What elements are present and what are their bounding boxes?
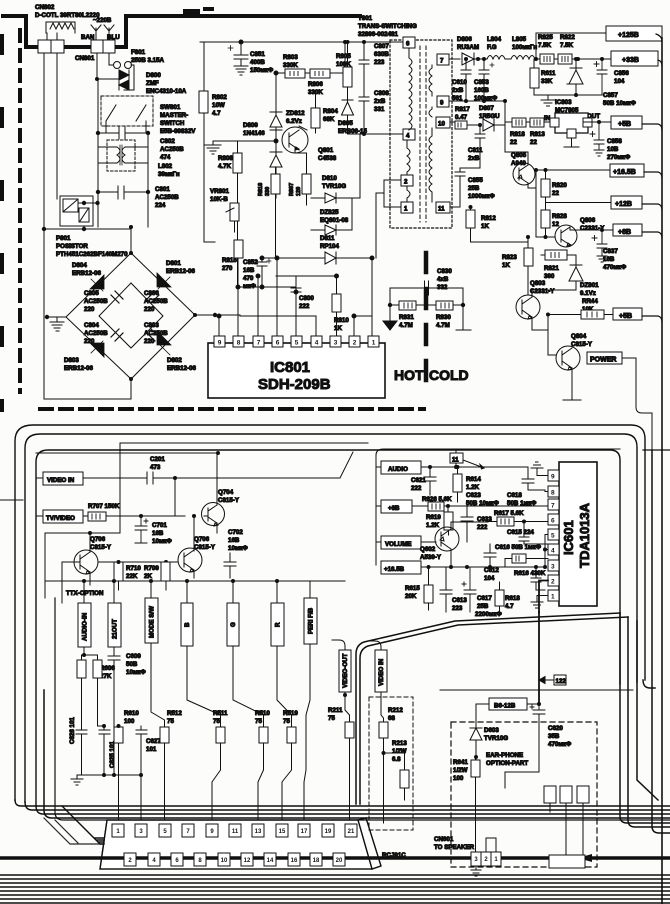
svg-text:9.1Vz: 9.1Vz	[580, 290, 596, 297]
node +8B	[613, 224, 642, 236]
svg-text:68K: 68K	[323, 116, 335, 123]
svg-text:6.2Vz: 6.2Vz	[286, 118, 302, 125]
svg-text:TDA1013A: TDA1013A	[577, 502, 592, 568]
svg-text:17: 17	[301, 829, 308, 835]
svg-text:C855: C855	[468, 177, 483, 184]
svg-text:1.2K: 1.2K	[426, 522, 440, 529]
svg-text:RP104: RP104	[320, 243, 339, 250]
wire gnd rail 775	[71, 775, 141, 785]
node POWER	[587, 352, 622, 364]
svg-text:EAR-PHONE: EAR-PHONE	[486, 752, 523, 759]
svg-text:B: B	[184, 622, 191, 627]
page-edge dashes far left	[0, 36, 4, 410]
svg-text:C856: C856	[614, 70, 629, 77]
wire IC601 pin1 heavy drop	[538, 612, 540, 705]
svg-text:TVR10G: TVR10G	[484, 735, 508, 742]
svg-text:100: 100	[453, 775, 464, 782]
svg-text:Q706: Q706	[90, 536, 106, 543]
svg-text:IC801: IC801	[270, 359, 310, 376]
svg-text:AC250B: AC250B	[84, 298, 108, 305]
connector BAN/BLU	[91, 40, 103, 53]
earphone jack contacts	[544, 786, 556, 803]
ground at bridge	[50, 322, 64, 331]
svg-text:C830: C830	[437, 268, 452, 275]
border outer	[15, 425, 645, 800]
svg-text:TTX-OPTION: TTX-OPTION	[66, 590, 104, 597]
svg-text:10мкФ: 10мкФ	[126, 669, 147, 676]
svg-text:15: 15	[279, 829, 286, 835]
svg-text:101: 101	[146, 746, 157, 753]
wire +16.5 rail to pins	[545, 535, 548, 568]
svg-text:D809: D809	[243, 122, 258, 129]
svg-text:C617: C617	[477, 595, 492, 602]
wire pin9 to IC803	[449, 101, 512, 122]
node TV/VIDEO	[43, 510, 83, 523]
wire bus bundle under IC601	[356, 613, 620, 804]
svg-text:R611: R611	[541, 70, 556, 77]
svg-text:D807: D807	[479, 105, 494, 112]
svg-text:R831: R831	[399, 314, 414, 321]
border second	[25, 434, 637, 802]
T801 pin 9	[437, 96, 449, 107]
node MODE S/W	[145, 598, 158, 643]
svg-text:C702: C702	[228, 529, 243, 536]
svg-text:D811: D811	[320, 235, 335, 242]
svg-text:AC250B: AC250B	[84, 330, 108, 337]
T801 pin 7	[437, 54, 449, 65]
svg-text:C815-Y: C815-Y	[218, 497, 240, 504]
svg-text:ERB12-06: ERB12-06	[64, 365, 93, 372]
resistor R813 22	[530, 118, 544, 127]
svg-text:16B: 16B	[152, 530, 164, 537]
svg-text:C801: C801	[155, 186, 170, 193]
border third	[36, 450, 620, 806]
svg-text:DZ801: DZ801	[580, 282, 599, 289]
connector CN801	[38, 40, 51, 53]
node AUDIO-IN	[78, 603, 91, 647]
svg-text:16B: 16B	[603, 256, 615, 263]
svg-text:10: 10	[221, 858, 228, 864]
svg-text:220: 220	[144, 306, 155, 313]
svg-text:4: 4	[406, 133, 410, 140]
svg-text:E5B-99832V: E5B-99832V	[160, 128, 196, 135]
svg-text:4: 4	[315, 340, 319, 347]
transistor Q602 A539-Y	[435, 527, 459, 551]
wire bus diagonals left	[62, 806, 104, 844]
svg-text:D805: D805	[338, 120, 353, 127]
wire feed rail	[45, 580, 345, 582]
resistor R830 4.7M	[436, 301, 453, 310]
wire right border verticals	[643, 680, 655, 688]
svg-text:C851: C851	[250, 51, 265, 58]
svg-text:Q602: Q602	[420, 546, 436, 553]
svg-text:R512: R512	[167, 710, 182, 717]
svg-text:ERB12-06: ERB12-06	[72, 270, 101, 277]
resistor R818v 330	[258, 183, 271, 196]
svg-text:~220B: ~220B	[93, 17, 112, 24]
IC801 pins	[214, 336, 379, 347]
svg-text:104: 104	[484, 575, 495, 582]
svg-text:R707 150K: R707 150K	[88, 503, 120, 510]
svg-text:19: 19	[325, 829, 332, 835]
svg-text:D803: D803	[64, 357, 79, 364]
svg-text:122: 122	[556, 678, 567, 685]
svg-text:7.5K: 7.5K	[560, 42, 574, 49]
svg-text:R641: R641	[453, 759, 468, 766]
resistor R802	[199, 91, 208, 113]
svg-text:EQ801-08: EQ801-08	[320, 217, 349, 224]
svg-text:+33B: +33B	[622, 57, 639, 64]
svg-text:F801: F801	[131, 49, 146, 56]
svg-text:270: 270	[222, 265, 233, 272]
svg-text:ERB12-06: ERB12-06	[166, 268, 195, 275]
svg-text:R617 5.6K: R617 5.6K	[494, 510, 524, 517]
resistor R709 2K	[161, 562, 170, 581]
resistor R611 33K	[530, 68, 539, 88]
svg-text:G: G	[230, 622, 237, 627]
svg-text:474: 474	[160, 154, 171, 161]
svg-text:SW801: SW801	[160, 104, 181, 111]
svg-text:20: 20	[336, 858, 343, 864]
svg-text:R808: R808	[218, 155, 233, 162]
svg-text:R822: R822	[560, 34, 575, 41]
svg-text:+8B: +8B	[388, 505, 400, 512]
svg-text:ERB12-06: ERB12-06	[167, 365, 196, 372]
svg-text:223: 223	[374, 59, 385, 66]
svg-text:400B: 400B	[250, 59, 265, 66]
svg-text:VIDEO-OUT: VIDEO-OUT	[342, 653, 349, 688]
svg-text:R610: R610	[124, 710, 139, 717]
T801 pin 10	[436, 117, 450, 128]
svg-text:1.2K: 1.2K	[466, 484, 480, 491]
T801 pin 11	[436, 202, 450, 213]
svg-text:R616 430K: R616 430K	[514, 570, 546, 577]
svg-text:C858: C858	[607, 138, 622, 145]
svg-text:R211: R211	[328, 707, 343, 714]
svg-text:16B: 16B	[228, 537, 240, 544]
svg-text:COLD: COLD	[429, 367, 469, 383]
wire pin10 cluster	[450, 121, 455, 123]
svg-text:50B 10мкФ: 50B 10мкФ	[603, 100, 637, 107]
svg-text:C803: C803	[144, 322, 159, 329]
svg-text:22: 22	[510, 139, 517, 146]
svg-text:+16.5B: +16.5B	[613, 169, 636, 176]
node B6-12B	[489, 698, 527, 710]
svg-text:C837: C837	[603, 248, 618, 255]
node 21OUT	[108, 603, 121, 647]
svg-text:AUDIO: AUDIO	[388, 466, 408, 473]
svg-text:+125B: +125B	[618, 32, 639, 39]
svg-text:R709: R709	[144, 565, 159, 572]
svg-text:21OUT: 21OUT	[112, 619, 119, 639]
svg-text:16B: 16B	[243, 267, 255, 274]
svg-text:R820: R820	[552, 182, 567, 189]
wire thick speaker bus	[0, 856, 670, 860]
svg-text:R618: R618	[505, 595, 520, 602]
bridge rectifier diamond	[66, 253, 195, 379]
svg-text:IC601: IC601	[561, 520, 576, 555]
svg-text:2xB: 2xB	[374, 98, 386, 105]
svg-text:C620: C620	[548, 725, 563, 732]
connector CN601 pins overlay	[471, 852, 501, 866]
ground C830 left	[383, 305, 397, 330]
svg-text:R823: R823	[502, 254, 517, 261]
connector pins bottom row	[124, 853, 345, 866]
svg-text:32896-002481: 32896-002481	[358, 31, 398, 38]
wire video in	[36, 478, 144, 516]
wire C801 loop	[98, 79, 148, 227]
svg-text:5: 5	[551, 533, 555, 540]
HOT/COLD dashed divider	[424, 253, 429, 395]
svg-text:8: 8	[551, 490, 555, 497]
svg-text:TV/VIDEO: TV/VIDEO	[46, 515, 75, 522]
svg-text:1N4146: 1N4146	[243, 130, 265, 137]
svg-text:Q704: Q704	[218, 489, 234, 496]
svg-text:331: 331	[374, 106, 385, 113]
svg-text:R828: R828	[552, 213, 567, 220]
svg-text:4.7: 4.7	[505, 603, 514, 610]
svg-text:HOT: HOT	[394, 367, 424, 383]
svg-text:2: 2	[404, 179, 408, 186]
svg-text:VOLUME: VOLUME	[385, 541, 411, 548]
wire AC input thick	[3, 16, 40, 47]
svg-text:R807: R807	[289, 183, 295, 196]
dashed box R212/R213	[369, 697, 413, 830]
svg-text:R803: R803	[283, 54, 298, 61]
wire video-out top stub	[332, 640, 345, 650]
svg-text:160B: 160B	[474, 87, 489, 94]
svg-text:C701: C701	[152, 522, 167, 529]
svg-text:C800: C800	[299, 295, 314, 302]
wire rail 287	[217, 287, 296, 336]
node PERI F/B	[304, 598, 317, 644]
svg-text:DZ825: DZ825	[320, 209, 339, 216]
svg-text:10W: 10W	[212, 102, 225, 109]
transistor Q801	[282, 127, 308, 153]
svg-text:10K-B: 10K-B	[210, 196, 228, 203]
svg-text:D810: D810	[322, 175, 337, 182]
svg-text:473: 473	[150, 464, 161, 471]
svg-text:220: 220	[84, 306, 95, 313]
svg-text:R619: R619	[426, 514, 441, 521]
svg-text:VIDEO IN: VIDEO IN	[378, 658, 385, 686]
svg-text:0.47: 0.47	[455, 114, 468, 121]
svg-text:C853: C853	[474, 79, 489, 86]
resistor R804	[311, 108, 320, 128]
svg-text:50B: 50B	[126, 661, 138, 668]
svg-text:C615 224: C615 224	[507, 529, 534, 536]
wire main top rail	[200, 42, 409, 91]
svg-text:+12B: +12B	[615, 201, 632, 208]
svg-text:4.7M: 4.7M	[436, 322, 450, 329]
svg-text:C616 50B 1мкФ: C616 50B 1мкФ	[495, 544, 542, 551]
svg-text:223: 223	[452, 605, 463, 612]
wire bridge right to rail	[195, 314, 240, 316]
svg-text:D800: D800	[146, 72, 161, 79]
IC601 chip	[559, 462, 597, 606]
wire top rails	[36, 443, 368, 598]
svg-text:R821: R821	[544, 265, 559, 272]
svg-text:75: 75	[328, 715, 335, 722]
svg-text:C804: C804	[84, 322, 99, 329]
wire CN801 down pair	[44, 53, 57, 229]
svg-text:12: 12	[244, 858, 251, 864]
T801 pin 6	[403, 37, 415, 48]
svg-text:SWITCH: SWITCH	[160, 120, 185, 127]
svg-text:22K: 22K	[126, 573, 138, 580]
resistor R810 1K	[332, 294, 341, 312]
svg-text:4.7K: 4.7K	[218, 163, 232, 170]
svg-text:TO SPEAKER: TO SPEAKER	[434, 844, 475, 851]
wire secondary pin7 rail	[449, 58, 460, 60]
svg-text:R817: R817	[455, 106, 470, 113]
node VOLUME	[381, 536, 421, 549]
svg-text:C618: C618	[507, 492, 522, 499]
svg-text:6: 6	[276, 340, 280, 347]
svg-text:120: 120	[296, 187, 302, 196]
svg-text:IC803: IC803	[555, 99, 572, 106]
svg-text:12: 12	[552, 221, 559, 228]
node +5B	[611, 116, 642, 129]
svg-text:C805: C805	[84, 290, 99, 297]
svg-text:POSISTOR: POSISTOR	[56, 243, 88, 250]
svg-text:75: 75	[167, 718, 174, 725]
svg-text:330K: 330K	[283, 62, 298, 69]
svg-text:R813: R813	[530, 131, 545, 138]
node +12B	[611, 196, 642, 209]
svg-text:10B: 10B	[607, 146, 619, 153]
resistor R821 390	[545, 250, 567, 260]
svg-text:D802: D802	[167, 357, 182, 364]
node G	[227, 603, 239, 646]
resistor R831 4.7M	[399, 301, 416, 310]
svg-text:D801: D801	[166, 260, 181, 267]
svg-text:C857: C857	[603, 92, 618, 99]
svg-text:TVR10G: TVR10G	[322, 183, 346, 190]
bottom dashed border of hot section	[40, 407, 424, 411]
svg-text:11: 11	[452, 457, 459, 464]
svg-text:2xB: 2xB	[452, 87, 464, 94]
wire audio frame	[376, 449, 620, 565]
svg-text:R614: R614	[466, 476, 481, 483]
svg-text:R510: R510	[255, 710, 270, 717]
svg-text:D603: D603	[484, 727, 499, 734]
T801 pin 2	[401, 175, 413, 186]
wire border fourth	[0, 499, 23, 501]
svg-text:6.8: 6.8	[392, 756, 401, 763]
svg-text:2xB: 2xB	[468, 155, 480, 162]
svg-text:100: 100	[124, 718, 135, 725]
svg-text:39мкГн: 39мкГн	[158, 171, 180, 178]
svg-text:222: 222	[477, 524, 488, 531]
svg-text:C802: C802	[160, 138, 175, 145]
svg-text:PTH451C262BF140M270: PTH451C262BF140M270	[56, 251, 128, 258]
svg-text:18: 18	[313, 858, 320, 864]
svg-text:4xB: 4xB	[437, 276, 449, 283]
node R	[271, 603, 284, 646]
node +33B	[611, 51, 658, 66]
node B	[181, 603, 193, 646]
T801 pin 4	[403, 129, 415, 140]
svg-text:R818: R818	[258, 183, 264, 196]
svg-text:1K: 1K	[481, 223, 489, 230]
svg-text:C610: C610	[452, 79, 467, 86]
svg-text:35B: 35B	[548, 733, 560, 740]
wire right tall rails	[652, 450, 670, 833]
ground near D809	[205, 141, 276, 154]
resistor R818 22	[512, 118, 526, 127]
svg-text:7: 7	[440, 58, 444, 65]
svg-text:SDH-209B: SDH-209B	[258, 376, 331, 393]
svg-text:MODE S/W: MODE S/W	[149, 606, 156, 638]
svg-text:1000мкФ: 1000мкФ	[468, 193, 495, 200]
wire bus top group	[15, 800, 670, 806]
svg-text:CN801: CN801	[75, 55, 95, 62]
node VIDEO IN	[375, 650, 387, 692]
node +16.5B	[381, 561, 421, 574]
svg-text:D-COTL 39RT80L2220: D-COTL 39RT80L2220	[35, 12, 100, 19]
svg-text:AC250B: AC250B	[160, 146, 184, 153]
svg-text:104: 104	[614, 78, 625, 85]
svg-text:75: 75	[213, 718, 220, 725]
svg-text:L802: L802	[158, 163, 173, 170]
svg-text:470: 470	[243, 275, 254, 282]
svg-text:C815-Y: C815-Y	[90, 544, 112, 551]
node +5B low	[613, 308, 642, 320]
svg-text:Q801: Q801	[318, 147, 334, 154]
svg-text:Q804: Q804	[571, 333, 587, 340]
dashed box EAR-PHONE	[451, 722, 597, 867]
svg-text:C808: C808	[374, 90, 389, 97]
svg-text:D806: D806	[457, 36, 472, 43]
svg-text:C609: C609	[126, 653, 141, 660]
svg-text:TRANS-SWITCHING: TRANS-SWITCHING	[358, 23, 417, 30]
node VIDEO IN	[43, 472, 83, 485]
connector RCJ91C overlay	[100, 818, 381, 869]
svg-text:T801: T801	[358, 15, 373, 22]
svg-text:220: 220	[84, 338, 95, 345]
svg-text:222: 222	[411, 485, 422, 492]
svg-text:Q806: Q806	[580, 217, 596, 224]
svg-text:Q706: Q706	[194, 536, 210, 543]
T801 pin 1	[401, 202, 413, 213]
page-edge ticks top	[183, 9, 200, 14]
svg-text:7: 7	[257, 340, 261, 347]
svg-text:R812: R812	[481, 215, 496, 222]
svg-text:470мкФ: 470мкФ	[548, 741, 572, 748]
resistor R820 22	[541, 179, 550, 197]
resistor R806	[310, 69, 330, 78]
svg-text:68: 68	[388, 715, 395, 722]
wire pin9 stub	[531, 462, 548, 476]
svg-text:R818: R818	[510, 131, 525, 138]
svg-text:+5B: +5B	[619, 313, 632, 320]
wire earphone net	[505, 714, 539, 788]
resistor R807 120	[289, 183, 302, 196]
svg-text:33K: 33K	[541, 78, 553, 85]
capacitor C851	[234, 42, 248, 75]
svg-text:1R5GU: 1R5GU	[479, 113, 500, 120]
node +8B	[381, 500, 412, 513]
wire peri drop	[304, 644, 310, 824]
svg-text:150мкФ: 150мкФ	[250, 67, 274, 74]
resistor R614 1.2K	[453, 474, 462, 492]
svg-text:C625 101: C625 101	[109, 741, 116, 768]
svg-text:RR44: RR44	[582, 298, 598, 305]
svg-text:F.G: F.G	[487, 44, 497, 51]
svg-text:AUDIO-IN: AUDIO-IN	[82, 612, 89, 641]
svg-text:P801: P801	[56, 235, 71, 242]
